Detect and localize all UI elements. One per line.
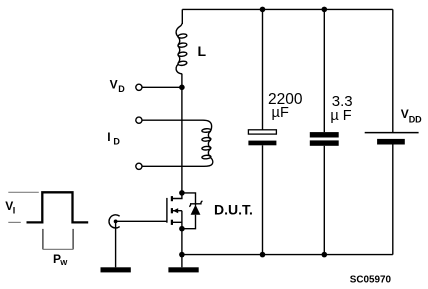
transistor Q1 body lead + arrow	[173, 210, 182, 212]
wire: C2 top	[323, 9, 325, 132]
node: source/rail junction	[179, 252, 185, 258]
sense coil exit to ID bottom wire	[142, 158, 213, 167]
wire: inductor to drain node	[181, 74, 183, 193]
ground (generator)	[101, 267, 131, 272]
svg-text:DD: DD	[409, 114, 422, 124]
svg-text:µF: µF	[272, 105, 290, 121]
wire: bottom rail	[182, 254, 393, 256]
battery VDD long plate	[365, 132, 419, 134]
inductor L bulge arcs	[178, 37, 180, 45]
node: VD junction	[179, 85, 185, 91]
wire: body to source	[181, 211, 183, 229]
svg-text:V: V	[110, 78, 118, 92]
node: rail junction C1	[260, 7, 266, 13]
wire: ID top to sense coil entry	[142, 120, 212, 130]
terminal ID bottom	[136, 163, 142, 169]
wire: source lead	[172, 221, 182, 223]
terminal VD	[136, 84, 142, 90]
transistor Q1 channel dashes	[171, 196, 173, 201]
svg-text:W: W	[60, 258, 68, 267]
capacitor C2 3.3uF plate top	[310, 132, 339, 137]
pulse width bracket bottom	[43, 248, 73, 250]
diode D1 triangle	[191, 205, 201, 215]
svg-text:SC05970: SC05970	[350, 274, 392, 285]
svg-text:L: L	[198, 43, 207, 59]
wire: C1 top	[262, 9, 264, 129]
svg-text:D.U.T.: D.U.T.	[214, 202, 253, 218]
pulse width bracket right	[72, 229, 74, 250]
svg-text:µ F: µ F	[330, 108, 351, 124]
ground (source)	[168, 267, 198, 272]
wire: top supply rail	[182, 8, 392, 10]
inductor L loops	[178, 33, 187, 38]
battery VDD short plate	[377, 139, 405, 145]
pulse diagram: baseline dash	[8, 221, 20, 223]
terminal ID top	[136, 117, 142, 123]
wire: C1 bottom	[262, 145, 264, 254]
node: source junction	[179, 226, 185, 232]
svg-text:V: V	[401, 107, 409, 121]
wire: diode branch top	[182, 193, 196, 206]
inductor L entry	[176, 24, 182, 37]
wire: generator to ground	[115, 221, 117, 267]
capacitor C1 2200uF plate + (hollow)	[248, 130, 276, 134]
wire: diode branch bottom	[182, 215, 196, 229]
wire: drain jog	[172, 193, 182, 199]
sense coil loops	[202, 128, 211, 132]
diode D1 cathode bar with hooks	[189, 201, 202, 207]
inductor L exit	[176, 64, 182, 74]
svg-text:D: D	[113, 136, 120, 146]
node: rail junction C2	[322, 7, 328, 13]
sense coil bulge arcs	[208, 131, 210, 139]
wire: VD terminal to node	[142, 86, 182, 88]
capacitor C2 plate bottom	[310, 140, 339, 145]
generator G1 arc	[109, 215, 120, 228]
wire: source to bottom rail	[181, 229, 183, 255]
wire: generator to gate	[116, 220, 167, 222]
wire: top rail to inductor	[181, 9, 183, 24]
pulse width bracket left	[42, 229, 44, 250]
generator G1 dot	[114, 220, 118, 224]
node: bottom rail C1	[260, 252, 266, 258]
wire: source ground stub	[181, 255, 183, 268]
node: drain junction	[179, 190, 185, 196]
node: bottom rail C2	[322, 252, 328, 258]
svg-text:I: I	[13, 205, 16, 215]
wire: battery top	[392, 9, 394, 132]
svg-text:I: I	[107, 130, 110, 144]
svg-text:D: D	[118, 84, 125, 94]
wire: battery bottom	[392, 145, 394, 255]
capacitor C1 plate -	[248, 141, 276, 146]
pulse diagram: top reference line	[8, 191, 39, 193]
pulse waveform trace	[27, 192, 89, 222]
wire: C2 bottom	[323, 146, 325, 255]
transistor Q1 gate bar	[166, 198, 168, 223]
